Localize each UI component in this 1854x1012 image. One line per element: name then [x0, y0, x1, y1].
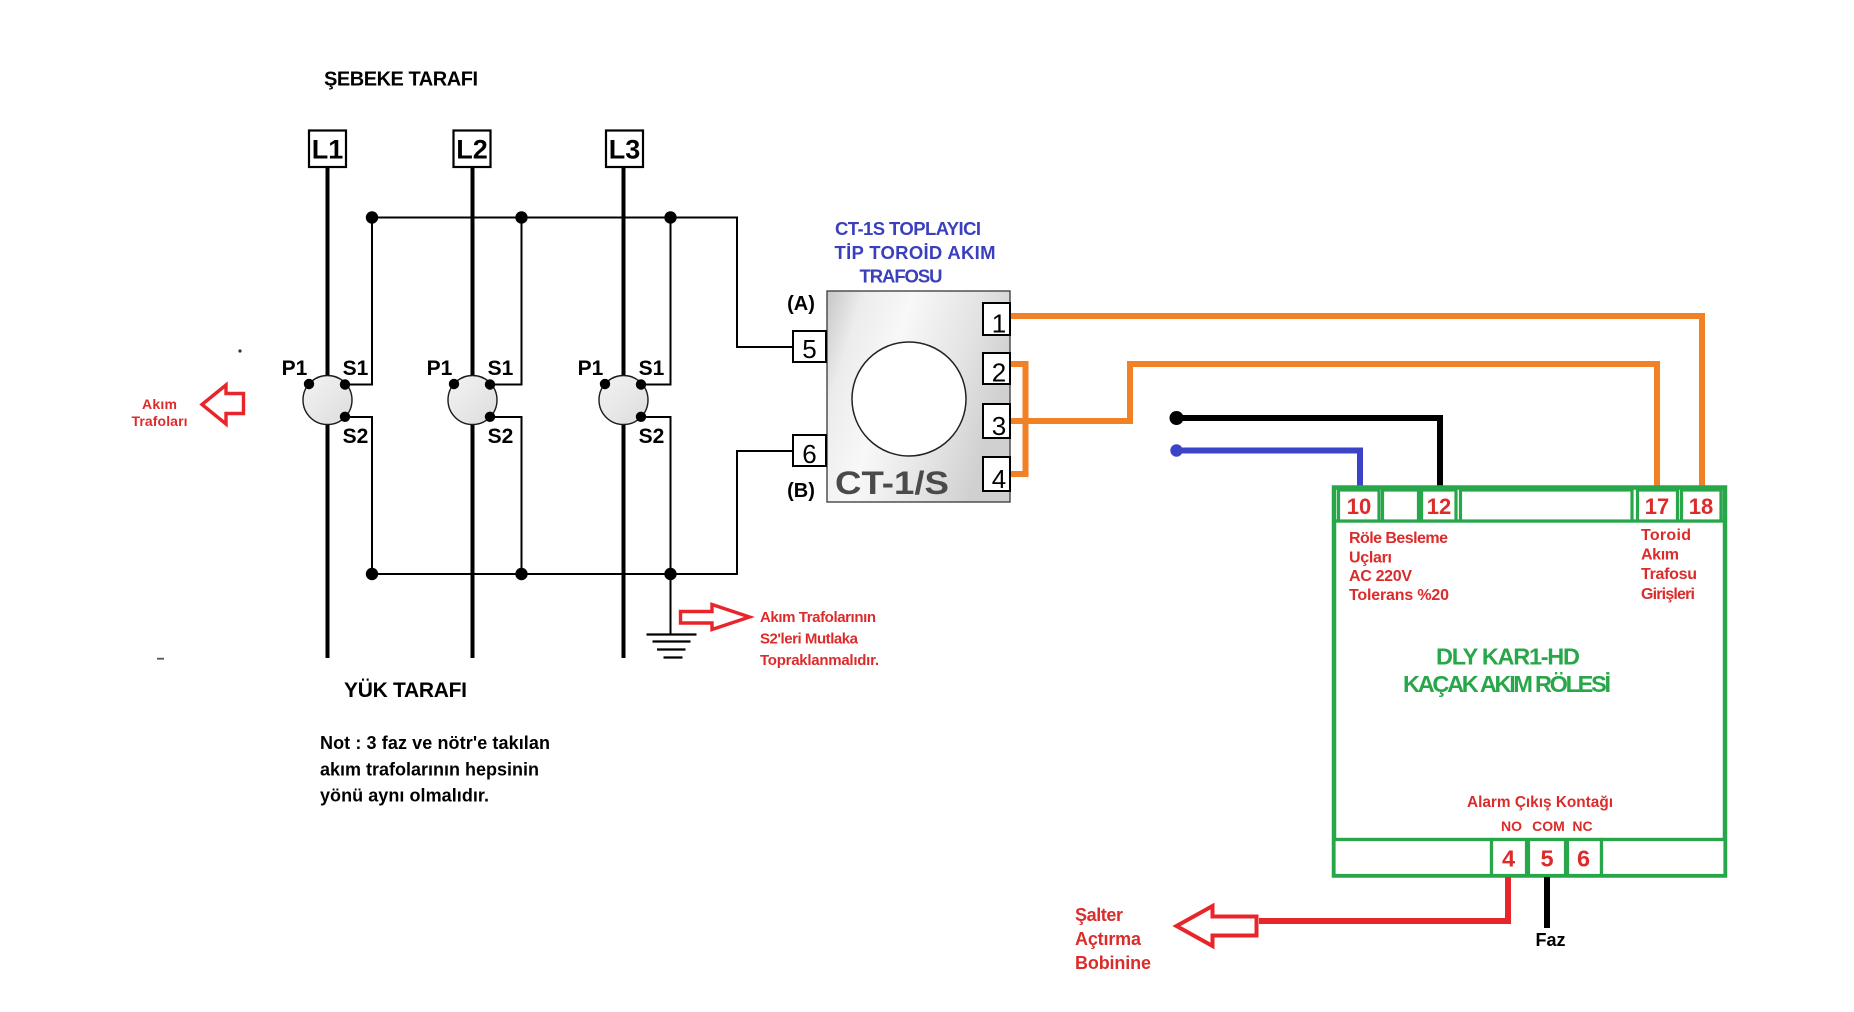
svg-text:1: 1 [992, 309, 1006, 339]
svg-text:6: 6 [802, 439, 816, 469]
svg-text:Bobinine: Bobinine [1075, 953, 1151, 973]
svg-text:Trafoları: Trafoları [132, 413, 188, 429]
svg-text:S2: S2 [343, 425, 369, 448]
svg-text:TİP TOROİD AKIM: TİP TOROİD AKIM [835, 242, 996, 263]
svg-text:Toroid: Toroid [1641, 527, 1691, 544]
svg-text:S2: S2 [639, 425, 665, 448]
svg-text:S1: S1 [343, 357, 369, 380]
svg-text:P1: P1 [282, 357, 308, 380]
svg-text:2: 2 [992, 358, 1006, 388]
svg-text:L1: L1 [312, 135, 344, 165]
svg-text:10: 10 [1347, 494, 1371, 519]
svg-text:Topraklanmalıdır.: Topraklanmalıdır. [760, 652, 879, 669]
svg-text:Not : 3 faz ve nötr'e takılan: Not : 3 faz ve nötr'e takılan [320, 733, 550, 753]
svg-text:L2: L2 [456, 135, 488, 165]
svg-text:TRAFOSU: TRAFOSU [860, 266, 943, 287]
svg-text:CT-1/S: CT-1/S [835, 465, 949, 501]
svg-text:Trafosu: Trafosu [1641, 566, 1697, 583]
svg-text:4: 4 [1502, 846, 1515, 872]
svg-text:KAÇAK AKIM RÖLESİ: KAÇAK AKIM RÖLESİ [1403, 671, 1611, 697]
svg-text:Akım: Akım [1641, 547, 1679, 564]
svg-text:Şalter: Şalter [1075, 905, 1123, 925]
svg-text:yönü aynı olmalıdır.: yönü aynı olmalıdır. [320, 786, 489, 806]
svg-text:akım trafolarının hepsinin: akım trafolarının hepsinin [320, 760, 539, 780]
svg-text:S2'leri Mutlaka: S2'leri Mutlaka [760, 631, 859, 648]
svg-text:Alarm Çıkış Kontağı: Alarm Çıkış Kontağı [1467, 794, 1613, 811]
svg-text:S1: S1 [639, 357, 665, 380]
svg-text:Tolerans %20: Tolerans %20 [1349, 587, 1449, 604]
svg-text:6: 6 [1577, 846, 1590, 872]
svg-text:Uçları: Uçları [1349, 550, 1392, 567]
svg-text:DLY KAR1-HD: DLY KAR1-HD [1436, 644, 1580, 670]
svg-text:L3: L3 [609, 135, 641, 165]
svg-text:YÜK TARAFI: YÜK TARAFI [344, 679, 467, 702]
svg-text:NC: NC [1572, 818, 1592, 834]
svg-text:Röle Besleme: Röle Besleme [1349, 530, 1448, 547]
svg-text:5: 5 [802, 334, 816, 364]
svg-text:S2: S2 [488, 425, 514, 448]
svg-text:ŞEBEKE TARAFI: ŞEBEKE TARAFI [324, 69, 478, 91]
svg-text:Akım: Akım [142, 396, 177, 412]
svg-text:Girişleri: Girişleri [1641, 586, 1695, 603]
svg-text:5: 5 [1540, 846, 1553, 872]
svg-text:Açtırma: Açtırma [1075, 929, 1142, 949]
svg-text:AC 220V: AC 220V [1349, 568, 1412, 585]
svg-text:12: 12 [1427, 494, 1451, 519]
svg-text:Akım Trafolarının: Akım Trafolarının [760, 609, 876, 626]
svg-text:COM: COM [1532, 818, 1565, 834]
svg-text:Faz: Faz [1535, 930, 1565, 950]
svg-text:P1: P1 [427, 357, 453, 380]
svg-text:P1: P1 [578, 357, 604, 380]
svg-text:17: 17 [1645, 494, 1669, 519]
svg-text:4: 4 [992, 464, 1006, 494]
svg-text:3: 3 [992, 411, 1006, 441]
svg-text:S1: S1 [488, 357, 514, 380]
svg-text:18: 18 [1689, 494, 1713, 519]
svg-text:CT-1S TOPLAYICI: CT-1S TOPLAYICI [835, 218, 981, 239]
svg-text:NO: NO [1501, 818, 1522, 834]
svg-text:(B): (B) [787, 480, 815, 502]
svg-text:(A): (A) [787, 293, 815, 315]
